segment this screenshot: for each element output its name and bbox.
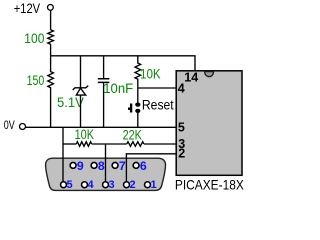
svg-text:2: 2 <box>130 179 136 191</box>
wire junction to DB9 pin3 <box>105 144 107 182</box>
svg-text:150: 150 <box>27 73 45 88</box>
svg-text:2: 2 <box>178 147 185 161</box>
0V terminal <box>20 124 26 130</box>
svg-text:5.1V: 5.1V <box>57 95 84 110</box>
DB9 connector shell <box>46 158 166 190</box>
+V rail wire to chip pin 14 <box>51 56 195 72</box>
wire pushbutton to 0V rail <box>137 113 139 128</box>
DB9 pin 4 <box>82 182 88 188</box>
svg-text:Reset: Reset <box>142 98 174 113</box>
wire R5 to chip pin 3 <box>144 143 176 145</box>
zener D1 top wire <box>80 56 82 88</box>
resistor R1 100 <box>48 30 54 44</box>
svg-text:3: 3 <box>109 179 115 191</box>
zener D1 anode triangle <box>76 88 85 95</box>
reset pushbutton contacts <box>135 103 140 107</box>
resistor R3 10K pullup <box>135 56 141 103</box>
+12V terminal <box>48 5 54 11</box>
wire +12V terminal to R1 <box>50 10 52 29</box>
svg-text:22K: 22K <box>123 128 142 143</box>
svg-text:4: 4 <box>178 82 185 96</box>
svg-text:10nF: 10nF <box>103 81 133 96</box>
svg-text:9: 9 <box>77 159 84 173</box>
DB9 pin 9 <box>70 162 76 168</box>
resistor R4 10K <box>76 142 91 147</box>
wire to chip pin 4 <box>138 87 176 89</box>
svg-text:14: 14 <box>184 71 198 85</box>
svg-text:7: 7 <box>119 159 126 173</box>
svg-text:5: 5 <box>178 121 185 135</box>
svg-text:6: 6 <box>140 159 147 173</box>
wire chip pin 2 to DB9 pin2 <box>126 154 176 182</box>
svg-text:0V: 0V <box>4 118 15 132</box>
svg-text:10K: 10K <box>140 66 161 81</box>
svg-text:5: 5 <box>67 179 73 191</box>
resistor R5 22K <box>127 142 144 147</box>
resistor R2 150 <box>48 56 54 128</box>
DB9 pin 8 <box>91 162 97 168</box>
svg-text:10K: 10K <box>75 127 95 142</box>
capacitor C1 plates <box>98 79 110 83</box>
wire R1 to +V rail <box>50 44 52 56</box>
DB9 pin 7 <box>112 162 118 168</box>
reset pushbutton actuator <box>128 104 131 113</box>
DB9 pin 1 <box>145 182 151 188</box>
DB9 pin 3 <box>103 182 109 188</box>
svg-text:100: 100 <box>24 31 44 46</box>
DB9 pin 2 <box>124 182 130 188</box>
wire serial-in net left <box>63 143 76 145</box>
wire 0V rail to DB9 pin5 <box>62 127 64 181</box>
zener D1 bottom wire <box>80 95 82 127</box>
DB9 pin 5 <box>61 182 67 188</box>
chip U1 body <box>176 71 242 176</box>
zener D1 5.1V cathode bar <box>73 86 89 90</box>
svg-text:4: 4 <box>88 179 95 191</box>
svg-text:PICAXE-18X: PICAXE-18X <box>175 177 244 193</box>
svg-text:1: 1 <box>151 179 157 191</box>
chip notch <box>205 72 214 77</box>
svg-text:+12V: +12V <box>14 1 40 16</box>
svg-text:8: 8 <box>98 159 105 173</box>
capacitor C1 top wire <box>103 56 105 79</box>
wire between R4 and R5 <box>92 143 127 145</box>
DB9 pin 6 <box>133 162 139 168</box>
capacitor C1 bottom wire <box>103 82 105 127</box>
0V rail <box>26 126 177 128</box>
